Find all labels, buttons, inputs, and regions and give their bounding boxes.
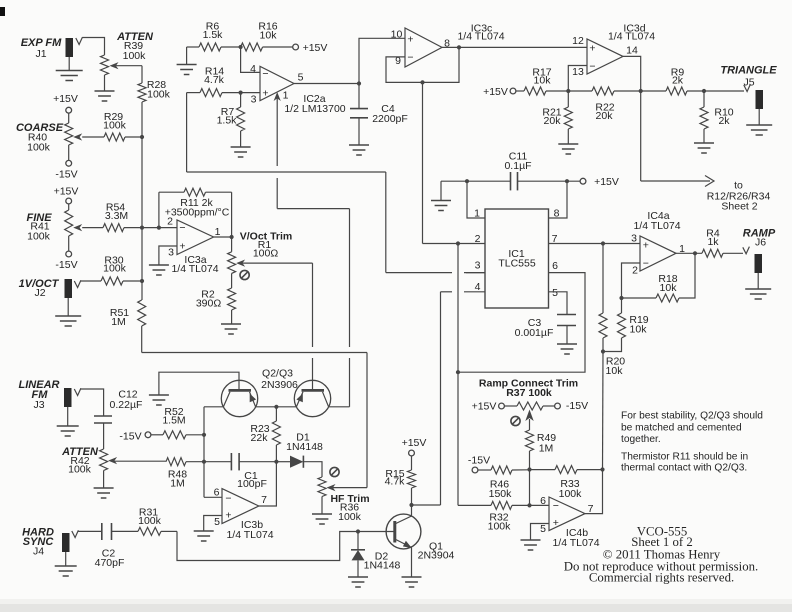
op-amp IC3b 1/4 TL074 [214,487,274,542]
wire (IC4b pin6) [530,504,550,506]
node (C1/R23/D1) [274,460,278,464]
svg-text:0.001µF: 0.001µF [515,327,554,339]
svg-text:100k: 100k [103,120,127,132]
resistor R29 100k [82,111,142,141]
resistor R33 100k [530,466,603,500]
svg-text:20k: 20k [544,115,562,127]
svg-text:22k: 22k [251,432,269,444]
node (IC4a out) [693,251,697,255]
resistor R31 100k [138,507,177,536]
ground (Q2 base) [149,395,169,405]
svg-text:+15V: +15V [402,437,427,449]
svg-text:3.3M: 3.3M [105,210,128,222]
svg-text:−: − [262,68,268,80]
ground (R39) [95,91,115,101]
ground (IC3a pin3) [149,265,169,275]
wire (IC3d pin13 to R17 node) [568,66,587,92]
node (R17/R21/R22) [566,89,570,93]
node (R18/R19) [619,296,623,300]
terminal +15V (R41 top) [54,186,79,211]
op-amp IC3d 1/4 TL074 [572,23,655,79]
wire (to sheet 2 arrow) [641,176,771,213]
wire (R14 to 555 pin3 loop) [187,93,485,273]
ground (R2) [221,324,241,334]
resistor R20 10k [599,244,625,378]
wire (IC3b pin5 to ground) [204,516,222,531]
wire (555 pin4) [441,281,486,505]
svg-text:−: − [589,61,595,73]
note (thermistor) [621,452,748,474]
svg-text:J4: J4 [33,546,44,558]
transistor Q1 2N3904 [358,505,455,577]
potentiometer R40 100k (COARSE) [16,122,82,154]
resistor R32 100k [458,501,530,532]
wire (pins 2-6 bus down) [457,244,459,506]
capacitor C4 2200pF [350,84,408,145]
svg-text:5: 5 [214,516,220,528]
resistor R4 1k [702,228,743,258]
wire (to 555 pin4) [412,504,441,506]
ground (J5) [746,125,772,135]
node (feedback to 555 pin2) [420,80,424,84]
svg-text:10k: 10k [630,324,648,336]
wire (ground to Q2 base) [159,372,239,394]
svg-text:1: 1 [474,208,480,220]
wire (IC3c feedback pin9) [386,47,459,82]
svg-text:100k: 100k [123,50,147,62]
svg-text:2200pF: 2200pF [372,113,408,125]
svg-text:+: + [589,42,595,54]
svg-text:100k: 100k [27,231,51,243]
resistor R7 1.5k [217,93,245,147]
ground (J4) [55,566,77,576]
svg-text:1k: 1k [707,236,719,248]
svg-text:1.5k: 1.5k [217,115,238,127]
svg-text:Sheet 2: Sheet 2 [721,201,757,213]
terminal +15V (R15) [402,437,427,470]
wire (IC3b output to C1 node) [259,462,277,506]
node (integrator summing node) [202,460,206,464]
resistor R15 4.7k [385,468,416,505]
ground (Q1 emitter) [402,577,422,587]
svg-text:1/4 TL074: 1/4 TL074 [608,31,655,43]
capacitor C2 470pF [78,523,138,569]
wire (555 pin1) [467,181,485,219]
svg-text:2: 2 [475,233,481,245]
svg-text:-15V: -15V [119,431,141,443]
svg-text:1: 1 [283,90,289,102]
ground (IC4b pin5) [521,540,541,550]
scan artifact (top-left mark) [0,7,5,16]
connector J2 (1V/OCT input jack) [19,278,81,316]
svg-text:1/4 TL074: 1/4 TL074 [226,529,273,541]
svg-text:−: − [225,492,231,504]
transistor Q3 2N3906 (matched pair) [276,380,349,416]
svg-text:0.1µF: 0.1µF [504,160,531,172]
svg-text:+3500ppm/°C: +3500ppm/°C [165,207,230,219]
svg-text:10k: 10k [606,365,624,377]
transistor Q2 2N3906 (matched pair) [204,368,298,417]
svg-text:1/4 TL074: 1/4 TL074 [457,31,504,43]
svg-text:13: 13 [572,66,584,78]
node (IC3d out on R22 line) [639,89,643,93]
capacitor C3 0.001uF [515,315,576,344]
diode D1 1N4148 [276,432,323,478]
wire (555 pin3 stub) [466,260,485,273]
ground (R10) [694,143,714,153]
connector J5 (TRIANGLE output jack) [704,65,777,125]
svg-text:10k: 10k [534,75,552,87]
node (Q1 base / D2) [356,529,360,533]
svg-text:100k: 100k [103,263,127,275]
diode D2 1N4148 [351,532,401,577]
wire (IC4a output) [676,252,702,254]
resistor R54 3.3M [82,202,177,232]
resistor R9 2k [666,67,704,96]
node (R33/R20/out) [600,467,604,471]
connector J1 (EXP FM input jack) [21,37,83,70]
resistor R28 100k [138,66,171,102]
resistor R52 1.5M [119,406,204,443]
ground (J6) [745,289,771,299]
potentiometer R42 100k (ATTEN) [61,446,117,488]
svg-text:100k: 100k [488,521,512,533]
wire (J1 to R39 top) [82,38,104,56]
wire (IC2a bias arrow from Q3 collector) [274,92,350,407]
svg-text:10: 10 [391,29,403,41]
ground (R42) [94,488,114,498]
wire (555 pin2) [423,233,486,245]
terminal -15V (R46) [468,455,491,473]
op-amp IC4a 1/4 TL074 [631,210,685,277]
svg-text:J6: J6 [755,237,766,249]
wire (Q2 collector to integrator node) [203,407,205,498]
node (Q1 collector/R15) [409,503,413,507]
note (stability) [621,411,763,446]
ground (R7) [231,147,251,157]
svg-text:100k: 100k [338,511,362,523]
svg-text:4: 4 [475,281,481,293]
svg-text:1: 1 [215,226,221,238]
svg-text:1/4 TL074: 1/4 TL074 [552,537,599,549]
svg-text:2N3906: 2N3906 [261,379,298,391]
svg-text:together.: together. [621,434,661,445]
svg-text:7: 7 [552,233,558,245]
terminal -15V (R40 bottom) [55,145,77,181]
ground (C4) [349,145,369,155]
node (feedback/output) [457,45,461,49]
resistor R21 20k [542,91,572,144]
wire (IC4a pin2) [622,263,641,298]
svg-text:TRIANGLE: TRIANGLE [720,65,777,77]
svg-text:+15V: +15V [472,401,497,413]
node (IC3a out / R1 top) [230,235,234,239]
svg-text:-15V: -15V [566,400,588,412]
ground (R36) [312,514,332,524]
svg-text:Commercial rights reserved.: Commercial rights reserved. [589,571,734,585]
ground (J2) [55,316,81,326]
node (R19/R20) [601,349,605,353]
node (R49/R46/R33) [527,467,531,471]
svg-text:1/2 LM13700: 1/2 LM13700 [284,103,345,115]
svg-text:For best stability, Q2/Q3 shou: For best stability, Q2/Q3 should [621,411,763,422]
wire (IC3a pin3 to ground) [159,246,177,265]
potentiometer R39 100k (ATTEN) [101,31,154,91]
svg-text:8: 8 [554,208,560,220]
terminal +15V (R17) [483,86,524,98]
resistor R22 20k [568,87,666,122]
op-amp IC3c 1/4 TL074 [391,23,505,68]
svg-text:100k: 100k [68,464,92,476]
svg-text:Q2/Q3: Q2/Q3 [262,368,293,380]
terminal -15V (R41 bottom) [55,236,77,271]
svg-text:4: 4 [250,63,256,75]
resistor R30 100k [81,255,142,286]
trimmer R37 100k (Ramp Connect Trim) [472,378,589,431]
svg-text:J3: J3 [33,399,44,411]
capacitor C12 0.22uF [80,389,142,450]
svg-text:be matched and cemented: be matched and cemented [621,423,742,434]
svg-text:+: + [553,517,559,529]
capacitor C1 100pF [204,453,276,490]
svg-text:150k: 150k [489,488,513,500]
resistor R11 2k thermistor (feedback) [159,188,232,237]
svg-text:-15V: -15V [55,169,77,181]
svg-text:J1: J1 [35,48,46,60]
wire (sync line to Q1 base) [177,531,358,560]
svg-text:3: 3 [631,233,637,245]
title block [564,525,758,585]
svg-text:3: 3 [475,260,481,272]
op-amp IC3a 1/4 TL074 [167,216,221,276]
wire (IC3c to 555 pin2) [422,82,424,243]
scan artifact (bottom band) [0,599,792,612]
resistor R14 4.7k [187,66,260,97]
resistor R18 10k (feedback) [622,253,696,302]
svg-text:1M: 1M [539,443,554,455]
ground (J1) [56,71,83,81]
wire (R1 wiper to Q3 base) [243,263,313,386]
svg-text:390Ω: 390Ω [196,298,222,310]
trimmer R1 100 Ohm (V/Oct Trim) [228,231,293,280]
node (IC2a out / C4) [357,81,361,85]
svg-text:5: 5 [552,287,558,299]
svg-text:+15V: +15V [54,186,79,198]
svg-text:7: 7 [261,494,267,506]
node (pin6 tee) [456,370,460,374]
svg-text:12: 12 [572,35,584,47]
wire (summing bus x=142) [141,102,143,300]
svg-text:5: 5 [540,523,546,535]
svg-text:+: + [643,239,649,251]
svg-text:5: 5 [298,72,304,84]
ground (J3) [57,426,79,436]
svg-text:+: + [262,87,268,99]
IC1 TLC555 timer [485,209,549,308]
svg-text:1N4148: 1N4148 [364,560,401,572]
resistor R51 1M [110,300,146,353]
svg-text:+: + [225,509,231,521]
wire (555 pin8) [549,181,568,219]
svg-text:+: + [179,241,185,253]
wire (IC2a out up to IC3c pin10) [359,38,405,83]
svg-text:-15V: -15V [55,259,77,271]
svg-text:1.5M: 1.5M [162,415,185,427]
wire (IC3c output to IC3d) [442,46,587,48]
resistor R46 150k [489,466,530,500]
op-amp IC4b 1/4 TL074 [540,495,600,549]
svg-text:1M: 1M [111,316,126,328]
resistor R49 1M [526,430,557,470]
node (R11 left) [157,226,161,230]
node (pin2/pin6 bus) [456,241,460,245]
svg-text:−: − [643,258,649,270]
wire (IC2a output) [294,83,359,85]
svg-text:2k: 2k [672,75,684,87]
resistor R48 1M [115,458,204,490]
svg-text:100pF: 100pF [237,478,267,490]
node (R29 junction) [140,135,144,139]
wire (555 pin5 to C3) [549,287,568,315]
resistor R10 2k [700,91,734,143]
svg-text:+15V: +15V [303,42,328,54]
svg-text:100k: 100k [559,488,583,500]
connector J4 (HARD SYNC input jack) [22,527,78,566]
svg-text:−: − [407,51,413,63]
svg-text:1M: 1M [170,478,185,490]
svg-text:100Ω: 100Ω [253,248,279,260]
resistor R17 10k [524,67,568,96]
wire (IC3b pin6) [204,496,222,498]
wire (IC3d output down) [623,56,641,181]
svg-text:−: − [553,500,559,512]
op-amp IC2a 1/2 LM13700 (OTA) [250,63,346,115]
potentiometer R41 100k (FINE) [26,210,82,243]
ground (C11) [431,201,451,211]
wire (IC4b output up) [585,470,603,514]
resistor R19 10k [603,298,649,352]
node (pin1 riser) [465,179,469,183]
svg-text:10k: 10k [660,282,678,294]
node (R9/R10/J5) [702,89,706,93]
node (pin8 riser) [565,179,569,183]
connector J6 (RAMP output jack) [743,228,776,289]
svg-text:−: − [179,222,185,234]
svg-text:6: 6 [552,260,558,272]
node (R32/pin6) [527,503,531,507]
wire (555 pin7) [549,233,641,245]
capacitor C11 0.1uF [441,151,580,201]
svg-text:+15V: +15V [483,86,508,98]
wire (R20 node down) [602,352,605,470]
node (R30 junction) [140,279,144,283]
terminal +15V (R16) [293,42,328,54]
svg-text:14: 14 [626,45,638,57]
svg-text:TLC555: TLC555 [498,258,536,270]
svg-text:2N3904: 2N3904 [418,550,455,562]
svg-text:0.22µF: 0.22µF [110,399,143,411]
svg-text:100k: 100k [138,515,162,527]
connector J3 (LINEAR FM input jack) [19,379,81,426]
ground (IC3b pin5) [194,531,214,541]
terminal +15V (C11/pin8) [580,176,619,188]
svg-text:20k: 20k [596,110,614,122]
node (Q2/Q3 emitters) [274,405,278,409]
svg-text:100k: 100k [27,142,51,154]
node (R14/R7/pin3) [239,91,243,95]
wire (555 pin6) [458,260,585,372]
trimmer R36 100k (HF Trim) [318,467,370,523]
svg-text:100k: 100k [147,89,171,101]
resistor R23 22k [250,407,280,462]
svg-text:1/4 TL074: 1/4 TL074 [633,220,680,232]
svg-text:Thermistor R11 should be in: Thermistor R11 should be in [621,452,748,463]
svg-text:1N4148: 1N4148 [286,441,323,453]
wire (R51 to HF trim, over Q3 lines) [142,353,367,488]
svg-text:1/4 TL074: 1/4 TL074 [171,263,218,275]
wire (IC3a output) [214,236,232,238]
svg-text:3: 3 [251,94,257,106]
svg-text:2: 2 [167,216,173,228]
resistor R2 390 Ohm [196,273,236,323]
svg-text:-15V: -15V [468,455,490,467]
svg-text:+15V: +15V [594,176,619,188]
svg-text:3: 3 [168,247,174,259]
node (pin7/IC4a) [601,241,605,245]
svg-text:4.7k: 4.7k [385,476,406,488]
svg-text:thermal contact with Q2/Q3.: thermal contact with Q2/Q3. [621,463,747,474]
svg-text:10k: 10k [260,30,278,42]
ground (D2) [348,577,368,587]
wire (trim node down) [529,470,531,506]
svg-text:+15V: +15V [53,93,78,105]
svg-text:J2: J2 [34,287,45,299]
svg-text:R37 100k: R37 100k [506,387,552,399]
wire (junction to IC2a pin4) [241,47,260,72]
node (R54 junction) [140,226,144,230]
svg-text:+: + [407,34,413,46]
terminal +15V (R40 top) [53,93,78,123]
svg-text:2: 2 [632,265,638,277]
wire (IC4b pin5 to ground) [531,524,550,540]
resistor R16 10k [241,21,293,52]
svg-text:470pF: 470pF [95,557,125,569]
ground (R6) [177,65,197,75]
node (R6/R16 junction) [239,45,243,49]
ground (R21) [558,144,578,154]
svg-text:1.5k: 1.5k [203,29,224,41]
svg-text:4.7k: 4.7k [204,74,225,86]
ground (C3) [557,344,577,354]
svg-text:2k: 2k [718,115,730,127]
node (R52 junction) [202,433,206,437]
resistor R6 1.5k [187,21,241,65]
